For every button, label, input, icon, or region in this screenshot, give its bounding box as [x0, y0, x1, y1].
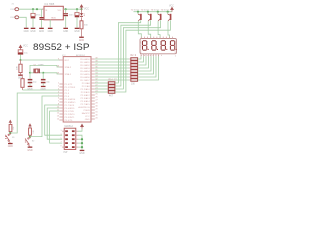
svg-text:ALE/PROG: ALE/PROG [78, 106, 89, 109]
wire C1 down [32, 18, 34, 27]
svg-text:40: 40 [95, 114, 97, 116]
wire ISP MISO [47, 108, 62, 139]
svg-text:P2.5/A13: P2.5/A13 [81, 97, 91, 100]
ground C6 [28, 86, 33, 87]
transistor T4 [167, 11, 172, 39]
transistor T1 [137, 11, 142, 39]
switch S2 [25, 137, 30, 145]
wire R10 gnd [81, 29, 83, 37]
ground C2 [39, 28, 44, 29]
svg-text:P1.4: P1.4 [65, 96, 70, 98]
MCU right pin stubs [91, 59, 95, 119]
svg-text:19: 19 [57, 72, 59, 74]
pad X1-1 [15, 8, 19, 11]
wire P0.6 [95, 76, 129, 78]
svg-text:470u: 470u [36, 14, 42, 16]
node junction C4 [76, 8, 78, 10]
wire base P2.0 [95, 82, 109, 84]
svg-text:XTAL1: XTAL1 [65, 73, 72, 76]
svg-text:100n: 100n [69, 15, 75, 17]
ground pad2 [24, 28, 29, 29]
svg-text:7805: 7805 [51, 18, 57, 20]
wire LED [81, 9, 83, 13]
svg-text:P0.2/AD2: P0.2/AD2 [80, 64, 90, 67]
svg-text:VCC: VCC [84, 9, 89, 11]
svg-text:7: 7 [61, 142, 62, 144]
resistor R12 [9, 124, 12, 131]
svg-text:GND: GND [63, 31, 68, 33]
svg-text:9: 9 [58, 58, 59, 60]
capacitor C1 [31, 13, 35, 16]
wire base P2.3 [95, 91, 109, 93]
wire C5 to RST [20, 55, 22, 60]
svg-text:GND: GND [27, 89, 32, 91]
MCU right pin numbers [95, 57, 97, 119]
svg-text:GND: GND [30, 31, 35, 33]
svg-text:P0.6/AD6: P0.6/AD6 [80, 76, 90, 79]
svg-text:6: 6 [58, 97, 59, 99]
wire ISP SCK [50, 111, 63, 143]
transistor T3 [157, 11, 162, 39]
ground R1 [18, 75, 23, 76]
wire P0.1 [95, 61, 129, 63]
wire C1 up [32, 9, 34, 13]
svg-text:P2.3/A11: P2.3/A11 [81, 91, 91, 94]
svg-text:P2.2/A10: P2.2/A10 [81, 88, 91, 91]
svg-text:P2.7/A15: P2.7/A15 [81, 103, 91, 106]
svg-text:P1.0/T2: P1.0/T2 [65, 84, 73, 86]
svg-text:P1.6/MISO: P1.6/MISO [65, 102, 76, 104]
svg-text:P1.5/MOSI: P1.5/MOSI [65, 99, 76, 101]
node ISP gnd 3 [81, 146, 83, 148]
svg-text:ISP: ISP [64, 151, 68, 154]
node junction LED [80, 8, 82, 10]
svg-text:31: 31 [95, 111, 97, 113]
ground ISP [80, 150, 85, 151]
svg-text:XTAL2: XTAL2 [65, 66, 72, 69]
regulator IC1 7805 [44, 6, 63, 19]
svg-text:P2.4/A12: P2.4/A12 [81, 94, 91, 97]
svg-text:3: 3 [58, 88, 59, 90]
node ISP gnd 2 [81, 142, 83, 144]
display digit 3 [161, 41, 167, 50]
svg-text:RST: RST [65, 60, 70, 62]
resistor pack base [108, 82, 115, 93]
svg-text:1: 1 [61, 130, 62, 132]
wire S2 to P1 [30, 96, 59, 137]
svg-text:GND: GND [8, 146, 13, 148]
svg-text:R2..9: R2..9 [131, 55, 137, 57]
svg-text:GND: GND [27, 150, 32, 152]
wire base P2.2 [95, 88, 109, 90]
svg-text:P2.1/A9: P2.1/A9 [82, 85, 91, 88]
svg-text:VO: VO [58, 10, 61, 12]
svg-text:P0.5/AD5: P0.5/AD5 [80, 73, 90, 76]
svg-text:P1.2: P1.2 [65, 90, 70, 92]
switch S1 [5, 133, 10, 141]
svg-text:P2.6/A14: P2.6/A14 [81, 100, 91, 103]
svg-text:P1.3: P1.3 [65, 93, 70, 95]
resistor R13 [29, 128, 32, 135]
svg-text:KYX-5461AS: KYX-5461AS [174, 40, 177, 52]
wire P0.0 [95, 58, 129, 60]
svg-text:P3.4/T0: P3.4/T0 [65, 120, 73, 122]
resistor R1 [19, 64, 22, 72]
wire C2 up [41, 9, 43, 17]
svg-text:89S52 + ISP: 89S52 + ISP [33, 42, 90, 53]
svg-text:27: 27 [95, 99, 97, 101]
node crystal left [29, 72, 31, 74]
wire regulator gnd [49, 20, 51, 28]
svg-text:13: 13 [57, 115, 59, 117]
wire pad2 to gnd [19, 17, 27, 27]
ground LED chain [79, 37, 84, 38]
svg-text:14: 14 [57, 118, 59, 120]
ground C3 [63, 28, 68, 29]
wire XTAL2 [30, 65, 59, 72]
node junction C2 [36, 8, 38, 10]
node S2 junction [29, 136, 31, 138]
svg-text:PSEN: PSEN [84, 110, 90, 112]
ground S1 [8, 143, 13, 144]
crystal Q1 [34, 69, 35, 74]
svg-text:EA/VPP: EA/VPP [82, 112, 90, 115]
MCU left pin labels [65, 60, 76, 122]
svg-text:9: 9 [61, 146, 62, 148]
wire VCC rail [63, 8, 81, 10]
svg-text:GND: GND [79, 40, 84, 42]
svg-text:25: 25 [95, 93, 97, 95]
svg-text:a b c d e f g h: a b c d e f g h [141, 55, 162, 57]
svg-text:GND: GND [41, 89, 46, 91]
svg-text:P3.2/INT0: P3.2/INT0 [65, 114, 76, 116]
svg-text:P2.0/A8: P2.0/A8 [82, 82, 91, 85]
svg-text:2: 2 [58, 85, 59, 87]
svg-text:VCC: VCC [23, 45, 28, 47]
node ISP gnd 1 [81, 138, 83, 140]
wire ISP gnd chain [78, 135, 82, 150]
ISP header right stubs [62, 131, 78, 147]
wire C2 down [41, 20, 43, 28]
svg-text:P3.0/RXD: P3.0/RXD [65, 108, 75, 110]
svg-text:10K: 10K [16, 66, 18, 70]
MCU right pin labels [78, 58, 90, 121]
capacitor C7 [42, 73, 44, 79]
svg-text:P3.1/TXD: P3.1/TXD [65, 111, 75, 113]
transistor T2 [147, 11, 152, 39]
svg-text:20: 20 [95, 117, 97, 119]
svg-text:P0.0/AD0: P0.0/AD0 [80, 58, 90, 61]
svg-text:P3.3/INT1: P3.3/INT1 [65, 117, 76, 119]
power VCC arrow reset [19, 45, 22, 49]
node junction C1 [32, 8, 34, 10]
resistor R10 [80, 21, 83, 29]
svg-text:GND: GND [74, 31, 79, 33]
display LED1 4-digit 7seg [140, 37, 177, 58]
svg-text:3: 3 [61, 134, 62, 136]
svg-text:4K7: 4K7 [109, 96, 114, 98]
svg-text:VCC: VCC [85, 116, 90, 118]
wires display segments [138, 56, 159, 80]
svg-text:26: 26 [95, 96, 97, 98]
svg-text:GND: GND [79, 153, 84, 155]
wire C4 [76, 9, 78, 12]
svg-text:VCC: VCC [169, 5, 174, 7]
svg-text:GND: GND [39, 31, 44, 33]
wire P0.3 [95, 67, 129, 69]
ISP header pin numbers [61, 130, 62, 148]
wire P0.5 [95, 73, 129, 75]
node RST junction [19, 59, 21, 61]
wires base to transistors [115, 20, 170, 92]
display digit 4 [170, 41, 176, 50]
display digit 1 [143, 41, 149, 50]
svg-text:P0.4/AD4: P0.4/AD4 [80, 70, 90, 73]
wire P0.2 [95, 64, 129, 66]
svg-text:30: 30 [95, 105, 97, 107]
wire RST [21, 59, 61, 61]
MCU left pin numbers [57, 58, 59, 120]
wire Vin rail [19, 8, 44, 10]
svg-text:P0.7/AD7: P0.7/AD7 [80, 79, 90, 82]
ground C4 [75, 28, 80, 29]
capacitor C5 reset [18, 50, 23, 53]
wire P0.4 [95, 70, 129, 72]
svg-text:29: 29 [95, 108, 97, 110]
wire ISP vcc [78, 129, 82, 132]
display bottom pin ticks [141, 54, 159, 57]
svg-text:IC1 7805: IC1 7805 [45, 3, 55, 6]
wire C3 [65, 9, 67, 13]
wire ISP MOSI [45, 105, 63, 135]
svg-text:1: 1 [58, 82, 59, 84]
svg-text:12: 12 [57, 112, 59, 114]
capacitor C4 [75, 13, 79, 16]
svg-text:GND: GND [48, 31, 53, 33]
ground C7 [41, 86, 46, 87]
power VCC arrow right [171, 7, 174, 11]
power VCC arrow ISP [81, 124, 84, 128]
wire crystal [30, 72, 43, 74]
wire R11 to P1.0 [23, 89, 61, 91]
svg-text:18: 18 [57, 65, 59, 67]
svg-text:12MHz: 12MHz [38, 64, 45, 66]
svg-text:P0.1/AD1: P0.1/AD1 [80, 61, 90, 64]
capacitor C6 [29, 73, 31, 79]
power VCC arrow top [80, 5, 83, 9]
wire XTAL1 [43, 73, 59, 74]
display top pin ticks [141, 37, 172, 39]
button S1 [9, 120, 11, 124]
node S1 junction [9, 132, 11, 134]
ground S2 [28, 147, 33, 148]
svg-text:P1.7/SCK: P1.7/SCK [65, 105, 75, 107]
svg-text:7: 7 [58, 100, 59, 102]
svg-text:GND: GND [24, 31, 29, 33]
MCU left pin stubs [59, 60, 63, 120]
button S2 [29, 124, 31, 128]
svg-text:GND: GND [85, 119, 90, 121]
node junction C3 [65, 8, 67, 10]
svg-text:P1.1/T2EX: P1.1/T2EX [65, 87, 76, 89]
resistor R11 P1.0 pulldown [21, 79, 24, 88]
pad X1-2 [15, 16, 19, 19]
wire P0.7 [95, 79, 129, 81]
display digit 2 [152, 41, 158, 50]
node crystal right [42, 72, 44, 74]
ground regulator [48, 28, 53, 29]
LED LED1 [80, 13, 83, 16]
regulator pin stubs [42, 9, 65, 21]
MCU IC2 AT89S52 [63, 57, 91, 122]
capacitor C2 [39, 17, 43, 18]
svg-text:P0.3/AD3: P0.3/AD3 [80, 67, 90, 70]
svg-text:5: 5 [61, 138, 62, 140]
wire VCC rail transistors [134, 11, 173, 13]
svg-text:KYX-5461AS: KYX-5461AS [140, 40, 143, 52]
ground C1 [31, 28, 36, 29]
svg-text:R14..17: R14..17 [109, 80, 118, 82]
wire base P2.1 [95, 85, 109, 87]
capacitor C3 [63, 13, 68, 14]
svg-text:28: 28 [95, 102, 97, 104]
wire S1 to P1 [10, 93, 59, 133]
svg-text:MA05-2: MA05-2 [65, 125, 74, 128]
